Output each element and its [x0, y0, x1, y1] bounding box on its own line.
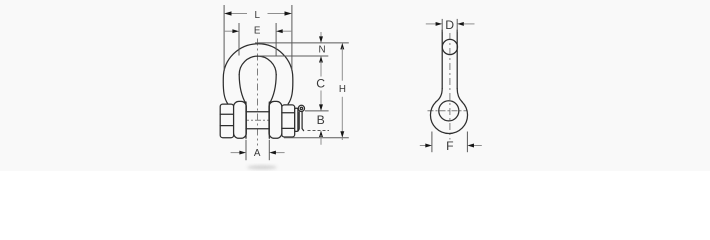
svg-text:B: B [317, 113, 325, 127]
svg-text:H: H [339, 84, 346, 95]
svg-text:D: D [445, 18, 454, 32]
svg-text:E: E [254, 25, 261, 36]
svg-text:L: L [254, 10, 260, 21]
svg-text:C: C [316, 77, 325, 91]
svg-text:N: N [318, 44, 325, 55]
svg-text:F: F [446, 139, 453, 153]
svg-text:A: A [254, 148, 261, 159]
